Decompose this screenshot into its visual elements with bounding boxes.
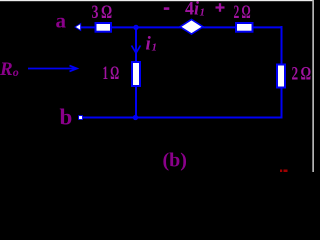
svg-text:(b): (b) [163, 150, 187, 172]
right edge border line [312, 0, 314, 172]
svg-text:3 Ω: 3 Ω [92, 2, 113, 23]
terminal a marker [75, 24, 81, 31]
current arrow i1 head [132, 46, 141, 54]
red artifact marks bottom [280, 170, 282, 173]
label plus [216, 3, 225, 12]
svg-text:b: b [60, 105, 73, 130]
svg-text:2 Ω: 2 Ω [292, 64, 312, 85]
resistor 2ohm top [236, 23, 253, 32]
terminal b marker [79, 116, 83, 120]
svg-text:4i: 4i [185, 0, 200, 20]
wire middle vertical through 1 ohm [135, 27, 137, 118]
resistor 1ohm middle [132, 62, 140, 86]
svg-text:1 Ω: 1 Ω [103, 63, 120, 84]
wire top horizontal a to right corner [80, 26, 282, 28]
wire bottom horizontal [83, 117, 283, 119]
label minus [164, 7, 170, 10]
top edge border line [0, 0, 314, 1]
wire right vertical [281, 26, 283, 118]
resistor 3ohm [96, 23, 112, 32]
dependent source diamond 4i1 [180, 20, 203, 35]
svg-text:1: 1 [200, 7, 206, 19]
junction node top [134, 26, 138, 30]
svg-text:a: a [56, 9, 67, 33]
svg-text:2 Ω: 2 Ω [234, 2, 251, 23]
svg-text:1: 1 [152, 42, 158, 54]
resistor 2ohm right [277, 65, 285, 88]
Ro arrow [28, 68, 76, 70]
junction node bottom [134, 116, 138, 120]
